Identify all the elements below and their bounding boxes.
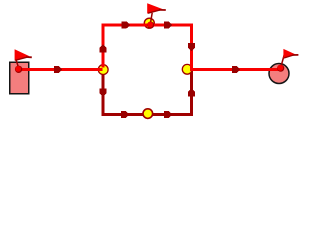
sink flag tip nub [293,54,299,56]
wire stub over left junction (from top) [102,62,105,68]
source flag bottom shading [15,57,27,60]
arrow right on top wire (left of node) [122,22,131,29]
top flag pennant [147,3,163,13]
wire: bottom branch (dark red) left-junction -> down -> bottom -> up -> right-junction [103,70,192,115]
wire stub over right junction (to right) [190,68,200,71]
arrow down on lower-left vertical wire [100,88,107,97]
node: right junction (yellow) [182,64,192,74]
arrow up on upper-left vertical wire [100,44,107,53]
source flag pole [16,60,19,69]
arrow right on bottom wire (left of node) [121,111,130,118]
arrow up on lower-right vertical wire [188,88,195,97]
sink flag bottom shading [284,55,294,58]
top flag bottom shading [148,10,160,13]
node: left junction (yellow) [98,65,108,75]
source body (rectangle) [10,62,29,93]
top flag tip nub [159,9,166,11]
wire stub over right junction (from top) [190,62,193,71]
wire stub over left junction (from left) [96,68,103,71]
node: bottom place (yellow) [143,109,153,119]
source connection dot [15,66,22,73]
wire over source edge [19,68,40,71]
wire: main from right junction to sink [192,68,282,71]
source flag pennant [15,49,30,60]
arrow right on source wire [54,66,63,73]
node: top place (yellow, under wire) [144,18,154,28]
arrow right on top wire (right of node) [164,22,173,29]
sink body (circle) [269,64,289,84]
sink flag pennant [283,49,295,58]
arrow down on upper-right vertical wire [188,43,195,52]
arrow right on bottom wire (right of node) [164,111,173,118]
source flag tip nub [26,56,32,58]
top connection dot highlight [147,22,153,28]
wire: top branch (bright red) left-junction -> up -> top -> down -> right-junction [103,25,192,70]
sink connection dot [277,65,284,72]
top flag pole [150,13,152,24]
wire: main from source to left junction [19,68,103,71]
source connection dot highlight [15,66,21,72]
sink connection dot highlight [277,65,283,71]
sink flag pole [281,55,284,67]
top connection dot [147,22,154,29]
arrow right on sink wire [232,66,241,73]
